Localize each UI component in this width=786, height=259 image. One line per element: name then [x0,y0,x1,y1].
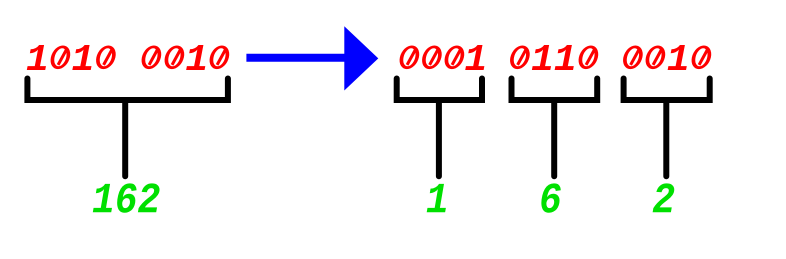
bracket under 1010 0010 [27,79,228,101]
blue conversion arrow [246,26,378,90]
red slashed zero : binary bit2 [162,45,186,69]
bracket under 0110 [512,79,598,101]
green decimal digit 1 under group1 [427,184,446,212]
red slashed zero : BCD g1 b2 [420,45,444,69]
red slashed zero : binary bit3 [139,45,163,69]
green decimal 162 digit 1 [93,184,112,212]
bracket under 0001 stem [436,100,442,176]
bracket under 0010 stem [663,100,669,176]
green decimal digit 2 under group3 [653,183,675,212]
red slashed zero : binary bit0 [207,45,231,69]
red slashed zero : BCD g3 b3 [621,45,645,69]
red slashed zero : BCD g3 b0 [689,45,713,69]
red digit 1 : BCD group2 digit 1 (b) [555,45,574,70]
bracket under 0110 stem [551,100,557,176]
red slashed zero : binary bit6 [48,45,72,69]
red slashed zero : BCD g1 b3 [397,45,421,69]
bracket under 0010 [624,79,710,101]
bracket under 1010 0010 stem [122,100,128,176]
red digit 1 : BCD group3 digit 1 [668,45,687,70]
red digit 1 : binary 1010 0010 digit 1 (bit5) [72,45,91,70]
bracket under 0001 [397,79,482,101]
red slashed zero : BCD g1 b1 [442,45,466,69]
red slashed zero : BCD g2 b3 [508,45,532,69]
red slashed zero : BCD g3 b2 [643,45,667,69]
red digit 1 : BCD group1 digit 1 [465,45,484,70]
red digit 1 : binary 1010 0010 digit 1 (bit1) [186,45,205,70]
red digit 1 : binary 1010 0010 digit 1 (bit7) [27,45,46,70]
green decimal digit 6 under group2 [541,183,560,212]
red slashed zero : binary bit4 [94,45,118,69]
green decimal 162 digit 2 [138,183,160,212]
red slashed zero : BCD g2 b0 [576,45,600,69]
red digit 1 : BCD group2 digit 1 (a) [532,45,551,70]
green decimal 162 digit 6 [117,183,136,212]
